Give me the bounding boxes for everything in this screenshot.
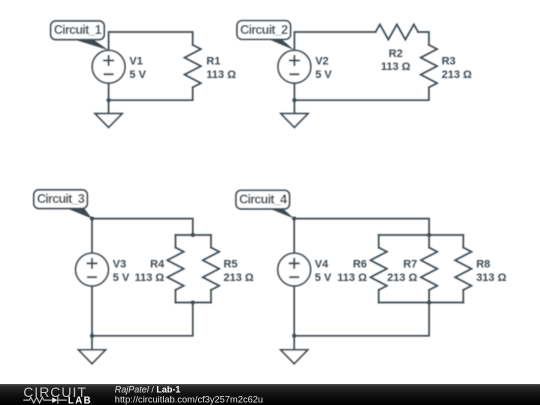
svg-text:Circuit_4: Circuit_4 <box>239 192 287 206</box>
wire R4 leads <box>175 235 177 303</box>
logo diode triangle <box>52 397 57 403</box>
svg-text:R5: R5 <box>224 258 238 270</box>
svg-text:LAB: LAB <box>68 396 92 405</box>
node B (Circuit_4 tap) <box>292 217 296 221</box>
wire V4- down to bottom rail <box>293 286 295 350</box>
svg-text:5 V: 5 V <box>315 69 332 81</box>
junction bus top circuit 4 <box>427 233 431 237</box>
wire node B down to V4+ <box>293 219 295 254</box>
svg-text:R8: R8 <box>476 258 490 270</box>
junction V1-/R1/ground <box>107 98 111 102</box>
wire R1 bottom to V1- rail <box>109 87 193 100</box>
wire R7 leads <box>428 235 430 303</box>
flag Circuit_3 <box>34 190 92 219</box>
wire V1- to ground stem <box>108 83 110 114</box>
svg-text:113 Ω: 113 Ω <box>381 61 411 73</box>
logo diode cathode bar and wire <box>58 397 67 404</box>
voltage source V3 <box>76 253 109 286</box>
flag Circuit_2 <box>237 21 294 51</box>
wire R3 bottom to V2- rail <box>294 87 429 100</box>
junction bus bottom circuit 3 <box>191 300 195 304</box>
ground circuit 2 <box>281 114 308 128</box>
svg-text:313 Ω: 313 Ω <box>476 272 506 284</box>
wire V1+ up and over to R1 top <box>109 32 193 50</box>
svg-text:V2: V2 <box>315 55 328 67</box>
svg-text:R2: R2 <box>389 48 403 60</box>
svg-text:113 Ω: 113 Ω <box>135 272 165 284</box>
svg-text:RajPatel / Lab-1: RajPatel / Lab-1 <box>115 385 181 395</box>
svg-text:R1: R1 <box>206 55 220 67</box>
wire node A down to V3+ <box>91 219 93 254</box>
voltage source V1 <box>92 50 125 83</box>
wire V2- to ground stem <box>293 83 295 114</box>
junction V4-/rail/ground <box>292 334 296 338</box>
ground circuit 4 <box>281 350 308 364</box>
svg-text:R4: R4 <box>150 258 165 270</box>
bus top R4/R5 <box>176 234 212 236</box>
flag Circuit_1 <box>51 21 109 50</box>
wire R2 right to R3 top <box>418 32 429 45</box>
resistor R5 <box>203 248 219 291</box>
svg-text:113 Ω: 113 Ω <box>206 69 236 81</box>
resistor R4 <box>167 248 183 291</box>
voltage source V2 <box>278 50 311 83</box>
footer bar <box>0 384 540 405</box>
wire R8 leads <box>462 235 464 303</box>
bus top R6/R7/R8 <box>379 234 464 236</box>
resistor R2 <box>376 24 419 39</box>
svg-text:5 V: 5 V <box>315 272 332 284</box>
junction V2-/R3/ground <box>292 98 296 102</box>
wire V2+ up and over to R2 left <box>294 32 375 50</box>
bus bottom R6/R7/R8 <box>379 302 464 304</box>
flag Circuit_4 <box>236 190 294 218</box>
resistor R3 <box>421 45 437 88</box>
svg-text:213 Ω: 213 Ω <box>442 69 472 81</box>
svg-text:5 V: 5 V <box>129 69 146 81</box>
svg-text:213 Ω: 213 Ω <box>224 272 254 284</box>
resistor R6 <box>371 248 387 291</box>
svg-text:Circuit_1: Circuit_1 <box>54 23 102 37</box>
junction bus top circuit 3 <box>191 233 195 237</box>
junction bus bottom circuit 4 <box>427 300 431 304</box>
svg-text:5 V: 5 V <box>113 272 130 284</box>
svg-text:113 Ω: 113 Ω <box>337 272 367 284</box>
node A (Circuit_3 tap) <box>90 217 94 221</box>
voltage source V4 <box>278 253 311 286</box>
svg-text:V3: V3 <box>113 258 126 270</box>
resistor R8 <box>455 248 471 291</box>
wire R6 leads <box>378 235 380 303</box>
svg-text:V1: V1 <box>129 55 142 67</box>
svg-text:213 Ω: 213 Ω <box>387 272 417 284</box>
svg-text:R3: R3 <box>442 55 456 67</box>
logo wire with resistor zigzag <box>23 397 67 404</box>
resistor R1 <box>185 45 201 88</box>
wire parallel bus bottom to bottom rail (circuit 3) <box>92 303 193 336</box>
junction V3-/rail/ground <box>90 334 94 338</box>
wire node B to parallel bus top (circuit 4) <box>294 219 429 235</box>
wire node A to parallel bus top (circuit 3) <box>92 219 193 235</box>
resistor R7 <box>421 248 437 291</box>
ground circuit 1 <box>95 114 122 128</box>
svg-text:V4: V4 <box>315 258 329 270</box>
bus bottom R4/R5 <box>176 302 212 304</box>
wire parallel bus bottom to bottom rail (circuit 4) <box>294 303 429 336</box>
svg-text:Circuit_2: Circuit_2 <box>240 23 288 37</box>
wire R5 leads <box>210 235 212 303</box>
svg-text:R6: R6 <box>353 258 367 270</box>
svg-text:http://circuitlab.com/cf3y257m: http://circuitlab.com/cf3y257m2c62u <box>115 395 263 405</box>
wire V3- down to bottom rail <box>91 286 93 350</box>
svg-text:Circuit_3: Circuit_3 <box>37 192 85 206</box>
svg-text:R7: R7 <box>403 258 417 270</box>
ground circuit 3 <box>79 350 106 364</box>
